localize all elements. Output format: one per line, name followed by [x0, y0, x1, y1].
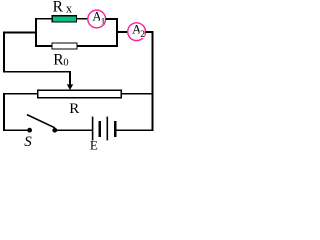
wire: top branch from A1 to right junction bar — [105, 18, 117, 20]
ammeter A2 — [128, 21, 146, 40]
label Rx — [53, 0, 73, 16]
wire: R0 branch left segment — [36, 45, 52, 47]
svg-text:E: E — [90, 138, 98, 153]
wire: top branch left segment — [36, 18, 52, 20]
wire: right junction bar — [116, 18, 118, 47]
svg-text:R: R — [69, 101, 79, 117]
wiper arrowhead — [67, 84, 73, 90]
switch S — [27, 115, 57, 133]
rheostat R (slide box) — [38, 90, 121, 98]
ammeter A1 — [88, 9, 106, 28]
wire: tap from left junction bar to left rail down to wiper — [4, 33, 70, 85]
svg-text:R: R — [53, 0, 64, 16]
svg-text:0: 0 — [63, 58, 68, 69]
wire: A2 to right rail down to bottom and to battery — [117, 32, 153, 130]
wire: rheostat right end to right rail — [121, 93, 153, 95]
svg-text:x: x — [66, 1, 73, 15]
label R0 — [53, 52, 68, 69]
wire: R0 branch right segment — [77, 45, 117, 47]
resistor R0 (box) — [52, 43, 77, 49]
wire: rheostat left end to left rail down to switch — [4, 94, 38, 131]
wire: switch to battery — [57, 129, 93, 131]
svg-text:2: 2 — [140, 30, 145, 40]
wire: from right junction bar to A2 — [117, 31, 128, 33]
wire: left junction bar — [35, 18, 37, 47]
svg-text:S: S — [24, 134, 32, 150]
svg-text:1: 1 — [101, 17, 106, 27]
wire: top branch between Rx and A1 — [77, 18, 89, 20]
battery E (two cells) — [93, 117, 117, 141]
resistor Rx (green box) — [52, 16, 76, 22]
